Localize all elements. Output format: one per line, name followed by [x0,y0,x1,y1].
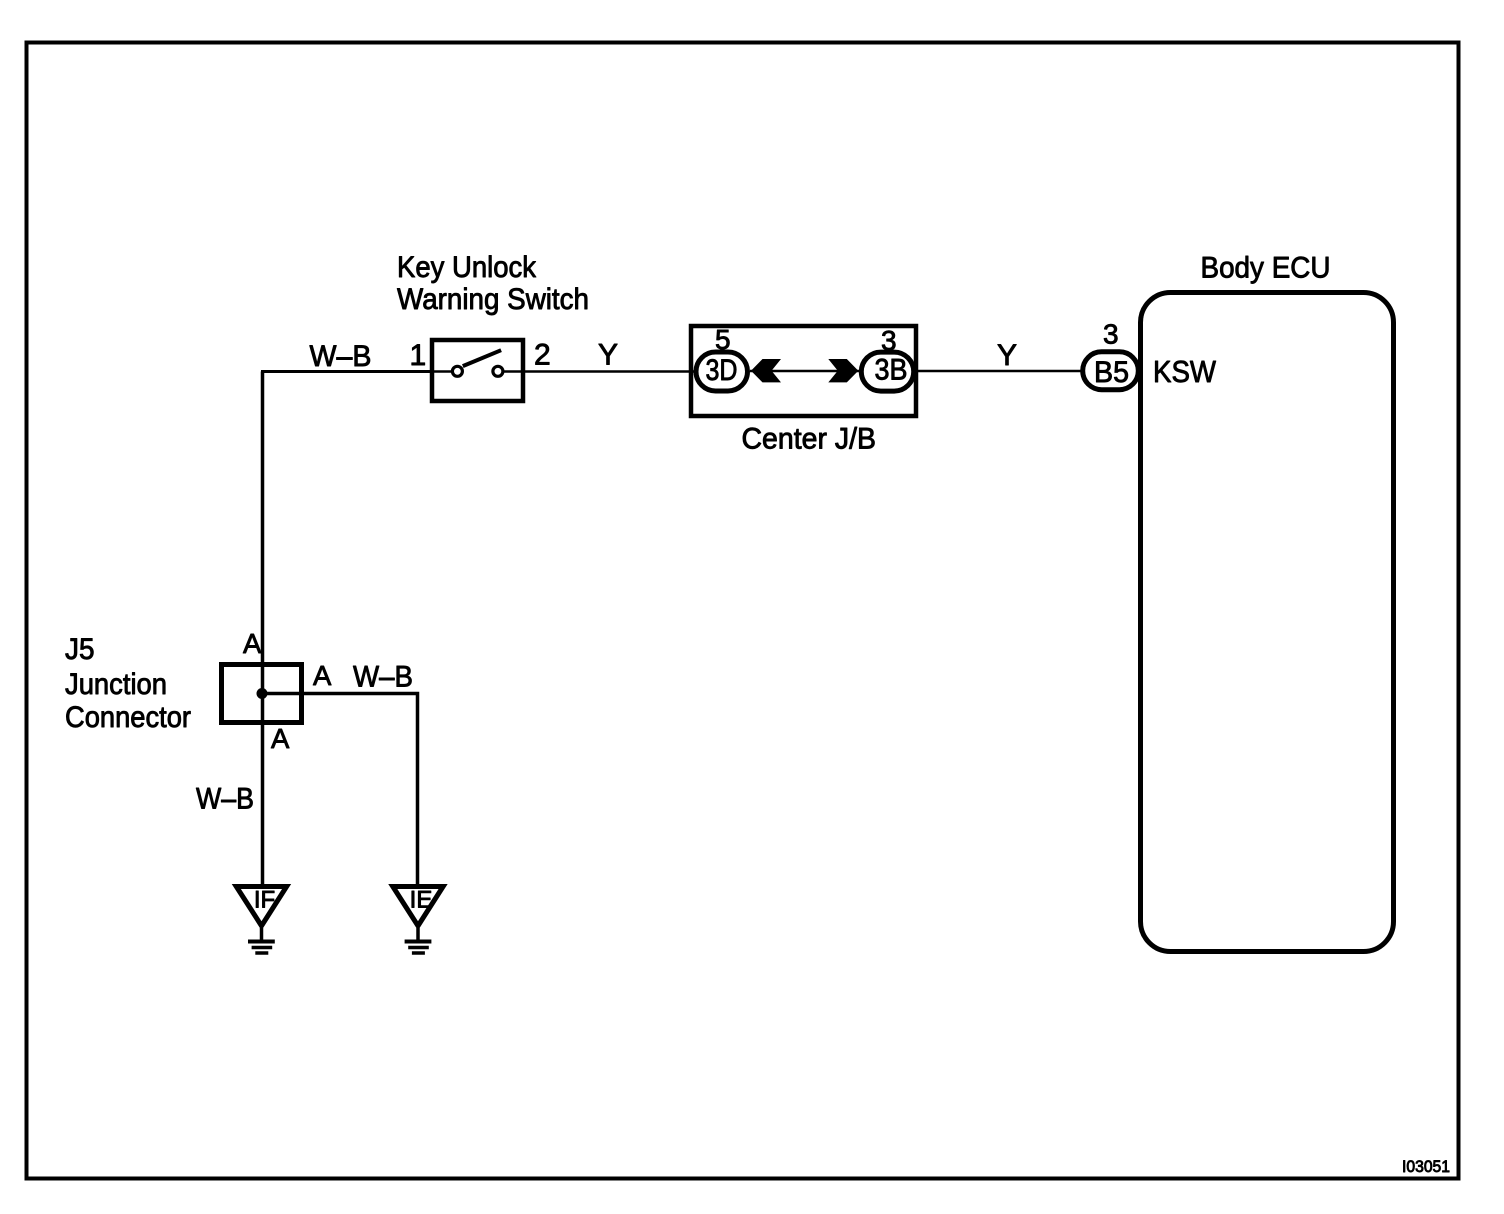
svg-text:A: A [243,628,262,659]
svg-text:Connector: Connector [65,701,191,734]
svg-text:Y: Y [598,339,618,372]
svg-text:Y: Y [997,339,1017,372]
svg-text:2: 2 [534,338,551,371]
svg-text:W–B: W–B [196,783,254,816]
svg-text:A: A [313,660,332,691]
svg-text:A: A [271,723,290,754]
svg-text:IF: IF [254,887,275,914]
svg-text:5: 5 [715,324,731,355]
svg-text:Center J/B: Center J/B [742,423,877,456]
svg-text:Junction: Junction [65,668,167,701]
svg-text:1: 1 [410,339,427,372]
svg-text:J5: J5 [65,633,95,666]
svg-text:I03051: I03051 [1402,1158,1450,1176]
svg-text:3: 3 [1103,319,1119,350]
svg-text:KSW: KSW [1153,354,1217,389]
svg-text:B5: B5 [1094,356,1129,389]
svg-text:Body ECU: Body ECU [1201,252,1331,285]
svg-text:W–B: W–B [353,661,413,694]
svg-text:3: 3 [881,325,897,356]
svg-text:3D: 3D [706,354,738,387]
svg-text:Key Unlock: Key Unlock [397,251,537,284]
svg-text:Warning Switch: Warning Switch [397,283,589,316]
svg-text:IE: IE [410,887,433,914]
svg-text:3B: 3B [875,354,908,387]
svg-text:W–B: W–B [310,340,372,373]
